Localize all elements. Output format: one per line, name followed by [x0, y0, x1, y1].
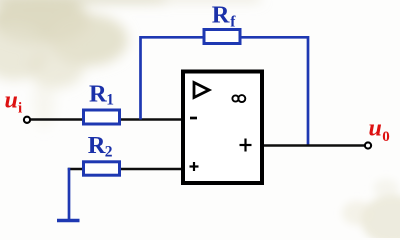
svg-text:u: u — [369, 115, 382, 141]
input terminal — [24, 117, 30, 123]
svg-text:R: R — [212, 1, 230, 28]
resistor R1 — [84, 110, 120, 124]
wire: input node to inverting input (horizontal, black) — [27, 118, 183, 121]
svg-text:u: u — [5, 87, 18, 113]
op-amp minus input sign — [190, 117, 197, 120]
resistor Rf — [204, 30, 240, 44]
svg-text:R: R — [88, 132, 106, 159]
wire: feedback loop (blue) from inverting node up over Rf down to output — [141, 37, 309, 145]
output terminal — [365, 142, 371, 148]
wire: ground branch vertical (blue) — [68, 168, 71, 221]
svg-text:1: 1 — [106, 92, 114, 109]
svg-text:2: 2 — [105, 143, 113, 160]
op-amp U1 box — [183, 72, 262, 184]
op-amp output plus sign — [240, 139, 252, 152]
svg-text:f: f — [230, 14, 236, 31]
svg-text:R: R — [89, 81, 107, 108]
resistor R2 — [84, 162, 120, 175]
svg-text:0: 0 — [382, 129, 390, 145]
op-amp infinity gain symbol — [232, 95, 245, 102]
wire: output of op-amp to output terminal (black) — [262, 144, 366, 147]
op-amp plus input sign — [190, 162, 199, 171]
wire: R2 to non-inverting input (horizontal, black) — [68, 168, 183, 171]
op-amp triangle symbol — [194, 83, 209, 98]
svg-text:i: i — [18, 101, 22, 117]
ground — [57, 219, 80, 222]
